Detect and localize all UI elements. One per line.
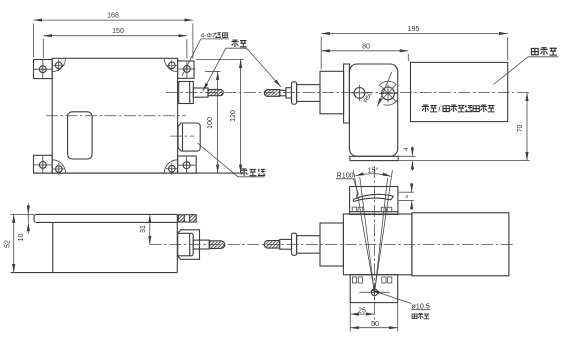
rotated crosshair through right lens (380, 84, 396, 101)
curved slot R100 crescent (353, 194, 393, 199)
top view: sensor housing body (52, 58, 177, 173)
main lens block (rounded) (349, 64, 397, 156)
svg-text:150: 150 (112, 28, 124, 35)
leader to 航插件 label (198, 143, 239, 177)
side plate (344, 64, 350, 123)
inner corner hole TL (55, 62, 62, 69)
svg-text:31: 31 (140, 225, 147, 233)
slot left tick (356, 194, 359, 198)
connector cup inner (178, 233, 194, 256)
label 光纤 optical fiber (231, 40, 238, 47)
dim 120 vertical (240, 59, 242, 173)
mating fiber ferrule (hatched) (264, 90, 279, 97)
svg-text:15°: 15° (368, 166, 379, 174)
svg-text:100: 100 (207, 117, 214, 129)
top-left ext line (11, 213, 34, 215)
mating ferrule bottom (hatched) (264, 241, 280, 249)
svg-text:ø10.5: ø10.5 (412, 302, 430, 311)
bottom edge + extension line shared (34, 172, 244, 174)
plate section hatched (178, 215, 196, 222)
mounting tab bottom-right (178, 156, 197, 173)
neck block (320, 71, 344, 114)
top plate edge-on (34, 214, 177, 222)
shade tube bottom view (412, 213, 509, 276)
label 安装孔 (412, 314, 417, 319)
svg-text:10: 10 (18, 234, 25, 242)
leader phi10.5 mounting hole (371, 290, 411, 304)
ext lines 25/50 (349, 303, 351, 332)
dim 25 (350, 313, 374, 315)
tab hole top-left (39, 66, 46, 73)
dim 10 (27, 203, 29, 214)
fiber ferrule (threaded, hatched) (208, 89, 223, 95)
bolt feet in adjuster (352, 207, 356, 212)
svg-text:195: 195 (408, 26, 420, 33)
mounting hole phi10.5 (371, 289, 378, 296)
leader to left ferrule (203, 48, 226, 91)
mounting tab top-left (34, 60, 53, 79)
dim 100 vertical (217, 71, 219, 173)
small dim at right of adjuster (398, 191, 414, 193)
lens circle left (354, 88, 365, 99)
angular dim arc 15deg (355, 174, 391, 177)
connector cup (178, 230, 200, 259)
fiber connector barrel (193, 88, 208, 97)
bolt circle arcs around right lens (379, 81, 397, 86)
mating fiber barrel (297, 85, 320, 102)
shade tube 遮光筒 (411, 62, 508, 121)
tab hole bottom-right (183, 162, 190, 169)
label 发射/接收器镜头部分 (422, 105, 429, 112)
stud barrel (193, 240, 209, 249)
corner pad arc BR (164, 160, 177, 173)
tab hole crosshair extents TL (34, 68, 52, 70)
svg-text:80: 80 (362, 43, 370, 50)
connector centerline (170, 135, 194, 137)
mounting plate (350, 275, 398, 303)
leader to right ferrule (247, 48, 281, 87)
mounting tab top-right (178, 61, 194, 78)
inner corner hole TR (169, 62, 176, 69)
15 deg cone lines (353, 170, 374, 292)
mating barrel1 (280, 239, 292, 249)
top adjuster block (350, 187, 398, 215)
fiber connector flange on body right (179, 82, 194, 104)
body horizontal centerline (46, 115, 186, 117)
bottom edge with extension (11, 272, 178, 274)
mating fiber flange (292, 82, 297, 104)
corner pad arc TL (52, 58, 65, 71)
mating fiber small collar (280, 90, 286, 96)
base plate under block (4mm) (350, 156, 398, 160)
label 遮光筒 (531, 48, 538, 54)
mating fiber nut (286, 88, 292, 98)
side body (53, 214, 178, 272)
connector 航插件 shell (178, 123, 200, 151)
display window rounded rect (68, 112, 93, 159)
svg-text:120: 120 (230, 110, 237, 122)
dim 195 (321, 33, 508, 35)
inner corner hole BR (169, 165, 176, 172)
dim 31 (149, 214, 151, 244)
bottom axis centerline (150, 244, 515, 246)
corner pad arc TR (164, 58, 177, 71)
dim 150 (43, 35, 187, 37)
svg-text:50: 50 (371, 321, 379, 328)
inner corner hole BL (56, 166, 63, 173)
svg-text:25: 25 (358, 307, 366, 314)
main fiber axis centerline (166, 92, 530, 94)
dim 50 (350, 327, 398, 329)
tab hole top-right (184, 66, 191, 73)
ferrule hatched (209, 241, 225, 249)
lens circle right (382, 87, 395, 100)
mounting tab bottom-left (34, 155, 53, 173)
main block bottom view (343, 214, 412, 275)
svg-text:R100: R100 (337, 171, 354, 180)
bottom reference line for 70 and 4 (398, 160, 530, 162)
vertical centerline bottom view (374, 166, 376, 325)
dim 70 (526, 93, 528, 161)
corner pad arc BL (52, 160, 65, 173)
tab hole bottom-left (39, 162, 46, 169)
svg-text:4: 4 (403, 147, 410, 151)
dim 4 (plate thickness) (398, 155, 415, 157)
label 航插件 (241, 169, 248, 176)
svg-text:168: 168 (107, 13, 119, 20)
mating barrel2 (297, 236, 320, 254)
svg-text:52: 52 (4, 240, 11, 248)
svg-text:70: 70 (517, 125, 524, 133)
neck block bottom (320, 223, 343, 266)
dim 52 (13, 214, 15, 272)
R50 radius arrow (377, 72, 391, 107)
mating flange (292, 233, 297, 255)
dim 168 (34, 19, 193, 21)
feet bumps on plate (352, 277, 356, 283)
dim 80 (321, 50, 408, 52)
